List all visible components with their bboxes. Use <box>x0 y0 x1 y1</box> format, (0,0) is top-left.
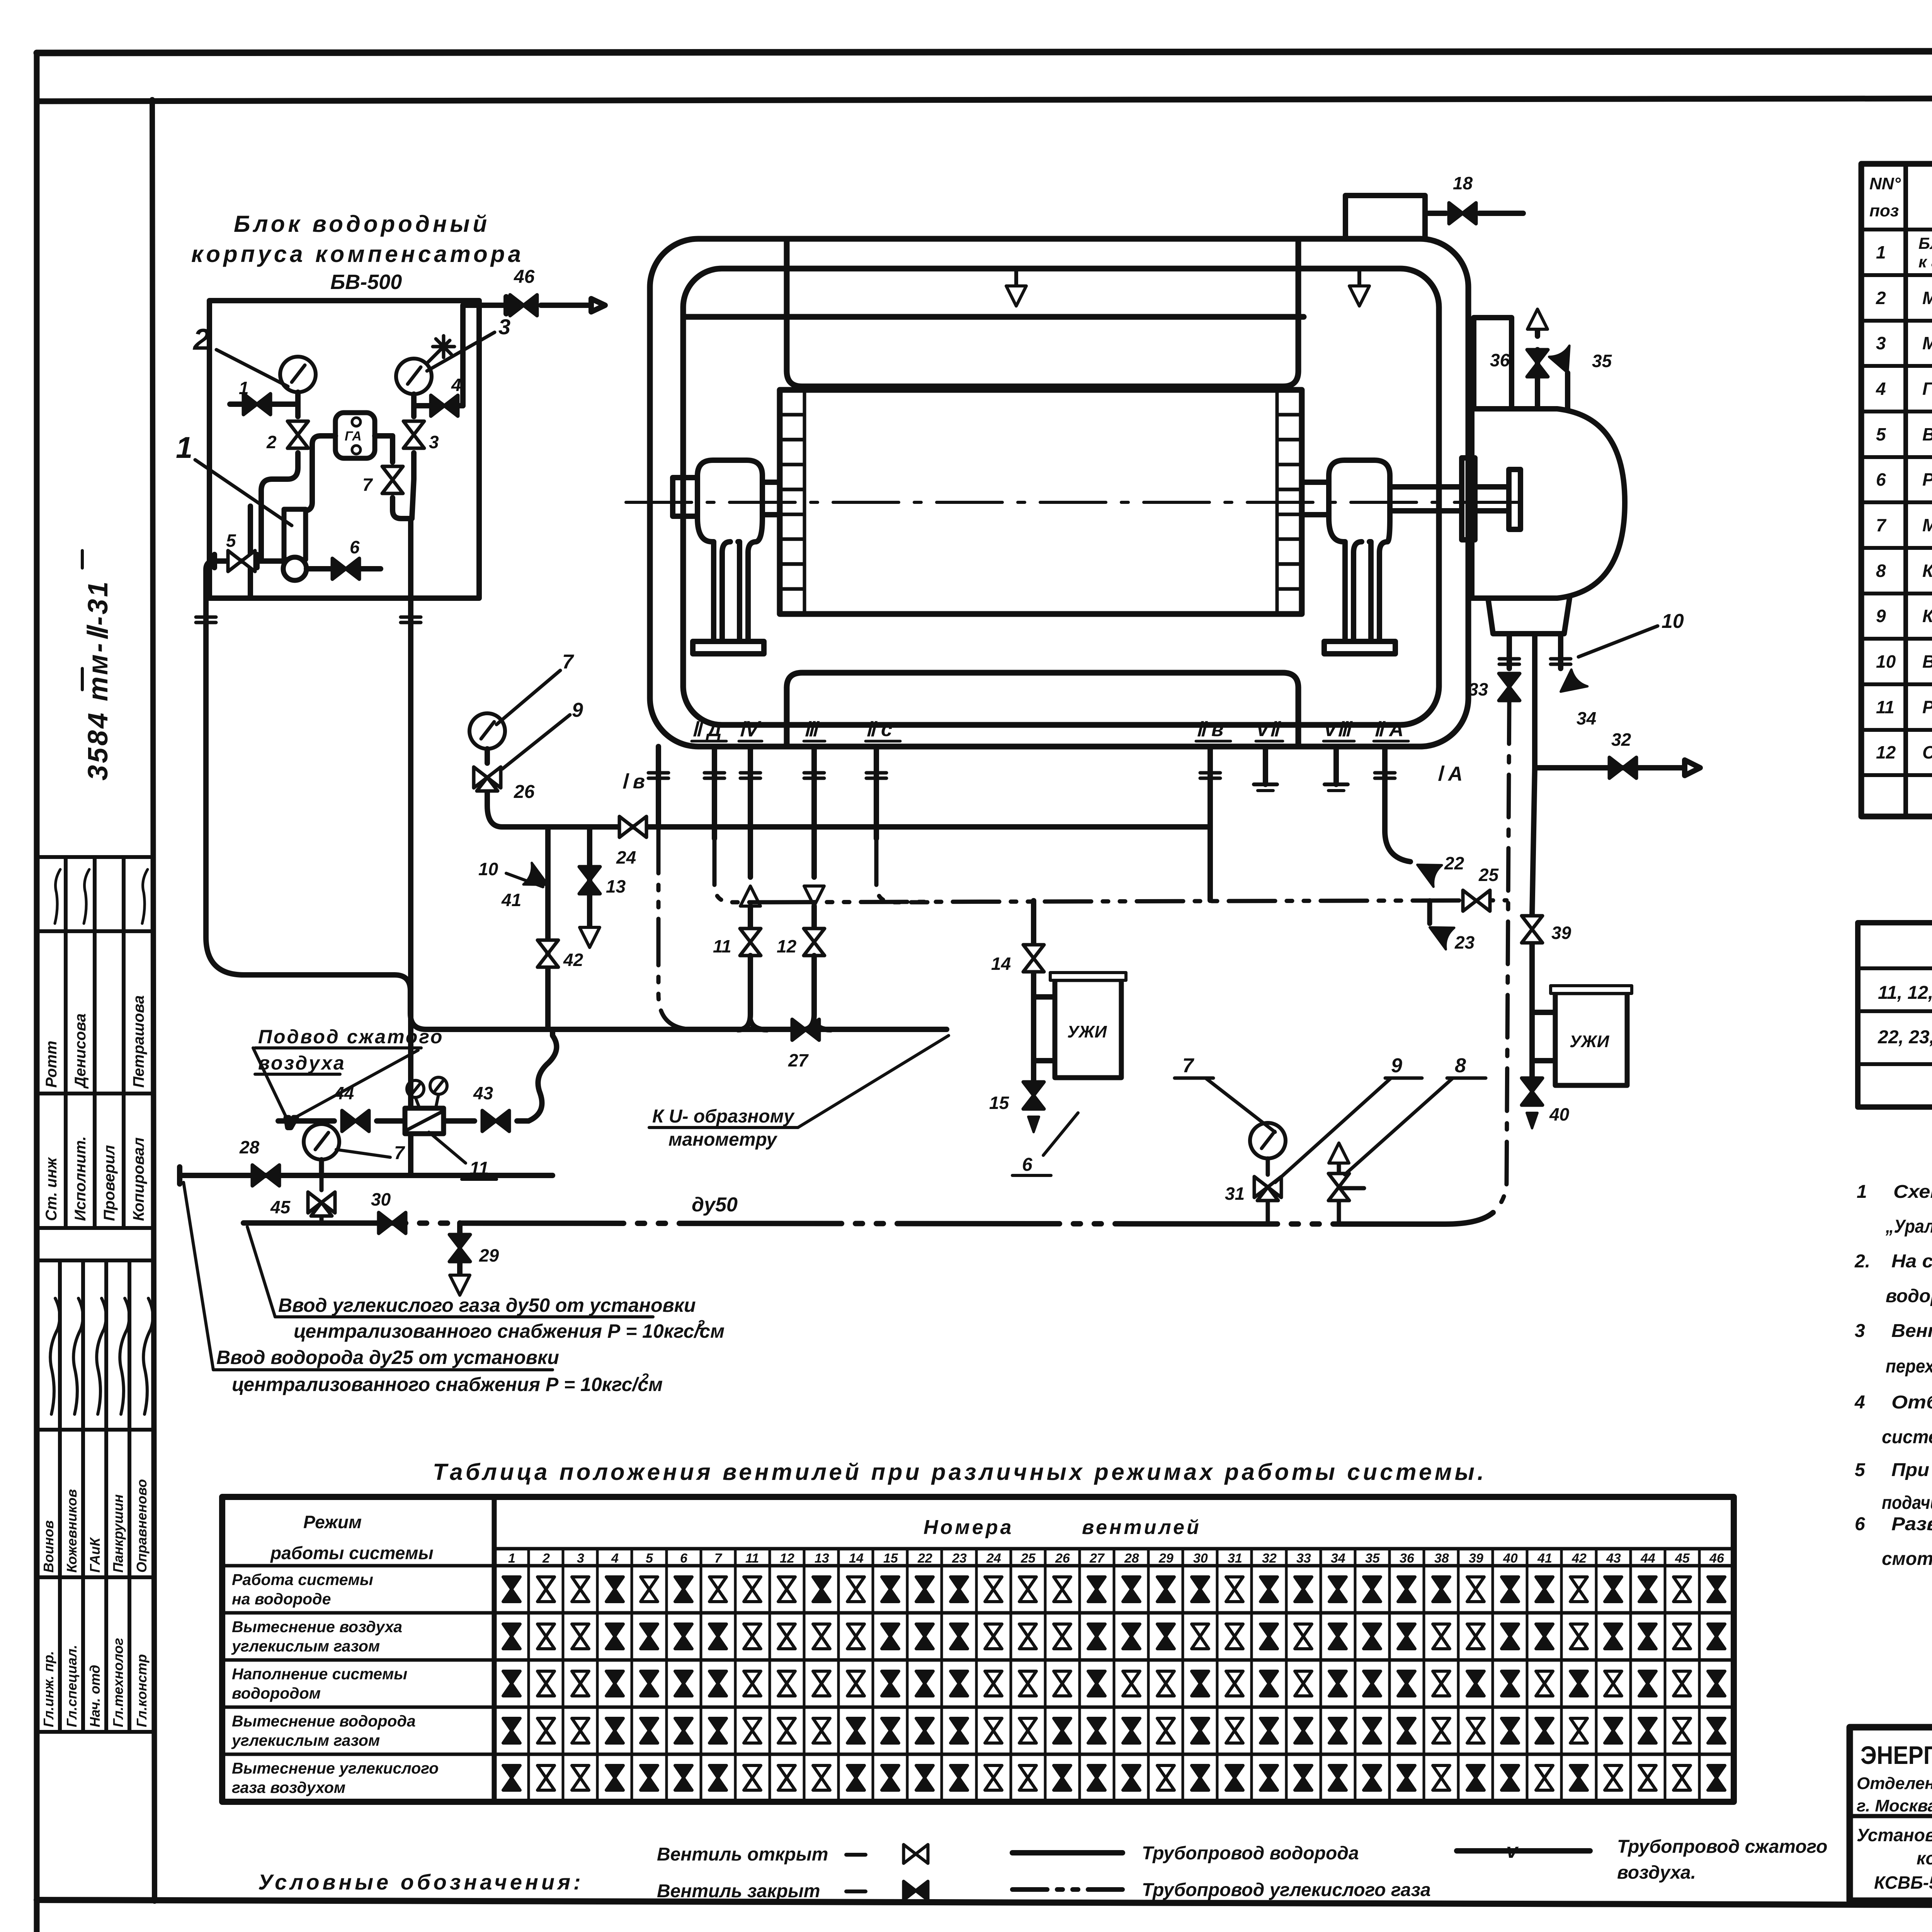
svg-text:Ввод водорода ду25 от уста: Ввод водорода ду25 от установки <box>216 1347 559 1368</box>
svg-text:газа воздухом: газа воздухом <box>232 1779 345 1796</box>
svg-text:Петрашова: Петрашова <box>130 995 147 1088</box>
svg-text:35: 35 <box>1592 351 1612 371</box>
svg-text:5: 5 <box>226 531 236 551</box>
svg-text:6: 6 <box>680 1551 688 1566</box>
svg-text:Разводку газопроводов в ф: Разводку газопроводов в фундаментах СК и… <box>1891 1514 1932 1534</box>
svg-text:43: 43 <box>1606 1551 1621 1566</box>
svg-text:На схеме показано положение: На схеме показано положение вентилей при… <box>1891 1251 1932 1272</box>
wire: filter line with valves 5,6 <box>228 561 381 569</box>
svg-text:40: 40 <box>1503 1551 1518 1566</box>
leaders 7,9,8 <box>1206 1078 1453 1182</box>
svg-text:25: 25 <box>1478 865 1499 885</box>
svg-text:Ст. инж: Ст. инж <box>43 1156 60 1221</box>
svg-text:Трубопровод углекислого газа: Трубопровод углекислого газа <box>1142 1880 1431 1900</box>
machine bottom connection numerals <box>621 718 1463 793</box>
svg-text:вентилей: вентилей <box>1082 1516 1201 1539</box>
svg-text:2: 2 <box>641 1371 649 1386</box>
valve 15 <box>1023 1082 1044 1109</box>
equipment table grid <box>1861 164 1932 816</box>
svg-text:Ⅱ в: Ⅱ в <box>1196 718 1223 741</box>
svg-text:корпуса компенсатора: корпуса компенсатора <box>191 241 524 267</box>
svg-text:13: 13 <box>815 1551 829 1566</box>
valve 28 <box>252 1165 279 1186</box>
svg-text:23: 23 <box>952 1551 967 1566</box>
valve 25 <box>1463 890 1490 911</box>
svg-text:35: 35 <box>1365 1551 1380 1566</box>
svg-text:1: 1 <box>1876 242 1886 262</box>
svg-text:11: 11 <box>745 1551 759 1566</box>
valve 6 <box>332 558 359 579</box>
svg-text:4: 4 <box>611 1551 619 1566</box>
svg-text:36: 36 <box>1490 350 1510 370</box>
svg-text:воздуха.: воздуха. <box>1617 1862 1696 1883</box>
svg-text:7: 7 <box>714 1551 723 1566</box>
wire: vent pipe to valve 46 <box>463 305 506 406</box>
svg-text:подачи воздуха должен быть: подачи воздуха должен быть отсоединен. <box>1882 1493 1932 1513</box>
svg-text:26: 26 <box>514 782 535 802</box>
hydrogen reducer pos.11 <box>405 1108 444 1134</box>
svg-text:Ⅱ А: Ⅱ А <box>1374 718 1404 741</box>
svg-text:углекислым газом: углекислым газом <box>231 1637 380 1655</box>
svg-text:1: 1 <box>176 430 192 464</box>
svg-text:12: 12 <box>777 936 797 956</box>
svg-text:11, 12, 14, 15 , 24 , 27, 28,: 11, 12, 14, 15 , 24 , 27, 28, 32, 39, 40… <box>1878 983 1932 1003</box>
svg-text:34: 34 <box>1331 1551 1345 1566</box>
valve 4 <box>431 395 458 416</box>
svg-text:Редуктор водородный: Редуктор водородный <box>1922 697 1932 717</box>
centerline <box>626 501 1530 504</box>
svg-text:29: 29 <box>1158 1551 1173 1566</box>
svg-text:14: 14 <box>991 954 1011 974</box>
svg-text:24: 24 <box>986 1551 1001 1566</box>
svg-text:7: 7 <box>562 651 574 673</box>
valve 45 three-way down <box>320 1175 324 1223</box>
svg-text:Номера: Номера <box>923 1516 1014 1539</box>
svg-text:Наполнение системы: Наполнение системы <box>232 1665 407 1683</box>
svg-text:33: 33 <box>1296 1551 1311 1566</box>
svg-text:11: 11 <box>1876 697 1895 717</box>
svg-text:3: 3 <box>498 315 510 339</box>
svg-text:Кожевников: Кожевников <box>64 1489 80 1573</box>
manifold D du50 <box>243 1206 1498 1224</box>
svg-text:Вентиль открыт: Вентиль открыт <box>657 1844 828 1865</box>
svg-text:Вентиль кислородный: Вентиль кислородный <box>1922 651 1932 672</box>
svg-text:11: 11 <box>713 936 731 956</box>
svg-text:Установка синхронных: Установка синхронных <box>1857 1825 1932 1845</box>
leader label 10 left <box>506 873 543 887</box>
svg-text:на водороде: на водороде <box>232 1590 331 1608</box>
svg-text:смотреть на чертежах NN°: смотреть на чертежах NN° ТХ-Ⅱ-9 и ТХ-Ⅱ-1… <box>1882 1549 1932 1569</box>
stator end-winding stacks <box>780 390 1302 614</box>
valve 24 <box>619 816 646 837</box>
filter unit pos.1 <box>284 509 306 560</box>
svg-text:Режим: Режим <box>303 1512 362 1532</box>
svg-text:5: 5 <box>1855 1460 1866 1480</box>
valve position table grid <box>222 1497 1734 1802</box>
svg-text:12: 12 <box>1876 742 1896 762</box>
svg-text:углекислым газом: углекислым газом <box>231 1731 380 1749</box>
svg-text:32: 32 <box>1611 730 1631 750</box>
svg-text:14: 14 <box>849 1551 864 1566</box>
svg-text:Ⅱ Д: Ⅱ Д <box>692 718 722 741</box>
svg-text:18: 18 <box>1453 173 1473 193</box>
svg-text:31: 31 <box>1228 1551 1242 1566</box>
svg-text:Реле уровня индуктивное: Реле уровня индуктивное <box>1922 469 1932 490</box>
svg-text:32: 32 <box>1262 1551 1277 1566</box>
valve 32 line with arrow <box>1535 760 1700 776</box>
svg-text:5: 5 <box>1876 424 1886 444</box>
svg-text:БВ-500: БВ-500 <box>330 270 402 294</box>
gas inflow arrows <box>1014 270 1018 286</box>
svg-text:15: 15 <box>989 1093 1010 1113</box>
valve table grid <box>1858 923 1932 1107</box>
svg-text:Нач. отд: Нач. отд <box>87 1665 103 1727</box>
svg-text:Вытеснение водорода: Вытеснение водорода <box>232 1712 416 1730</box>
svg-text:1: 1 <box>1857 1182 1867 1202</box>
manifold A (hydrogen header) <box>502 824 1210 830</box>
wire: block downpipes with flanges <box>206 598 411 1175</box>
svg-text:4: 4 <box>1876 379 1886 399</box>
svg-text:Оправненово: Оправненово <box>134 1479 150 1573</box>
svg-text:6: 6 <box>1022 1155 1032 1175</box>
svg-text:28: 28 <box>239 1137 260 1157</box>
svg-text:33: 33 <box>1468 679 1488 699</box>
valve 7 <box>382 466 403 493</box>
valve 5 <box>228 551 255 571</box>
valve 2 <box>287 421 308 448</box>
shaft left stub <box>673 478 697 516</box>
svg-text:ду50: ду50 <box>692 1194 738 1216</box>
valve 33 <box>1499 673 1520 701</box>
compensator outer casing <box>650 239 1468 747</box>
valve 1 <box>243 394 270 415</box>
gauge 7 tap + three-way 31 <box>1250 1123 1286 1158</box>
svg-text:Ⅲ: Ⅲ <box>804 718 820 741</box>
svg-text:13: 13 <box>606 876 626 896</box>
svg-text:10: 10 <box>1876 651 1896 672</box>
valve 27 <box>792 1019 819 1040</box>
gauge 2 (pos.2 manometer) <box>280 357 316 392</box>
svg-text:38: 38 <box>1434 1551 1449 1566</box>
svg-text:Соединение штуцерно-торцевое: Соединение штуцерно-торцевое <box>1922 742 1932 762</box>
valve 46 <box>510 295 537 316</box>
svg-text:Ⅰ в: Ⅰ в <box>621 770 645 793</box>
svg-text:1: 1 <box>508 1551 515 1566</box>
svg-text:Вентиль закрыт: Вентиль закрыт <box>657 1881 820 1901</box>
svg-text:Гл.инж. пр.: Гл.инж. пр. <box>41 1651 56 1727</box>
svg-text:15: 15 <box>883 1551 898 1566</box>
leader 11 <box>429 1132 466 1163</box>
gas analyzer GA box <box>335 413 375 458</box>
svg-text:5: 5 <box>646 1551 653 1566</box>
svg-text:8: 8 <box>1455 1054 1466 1077</box>
svg-text:7: 7 <box>1876 515 1887 535</box>
manifold B (CO2 to right) <box>769 900 1507 902</box>
svg-text:ЭНЕРГОСЕТЬПРОЕКТ: ЭНЕРГОСЕТЬПРОЕКТ <box>1861 1741 1932 1769</box>
svg-text:31: 31 <box>1225 1184 1245 1204</box>
svg-text:11: 11 <box>469 1158 489 1179</box>
top duct and valve 18 <box>1345 196 1523 239</box>
svg-text:Газоанализатор: Газоанализатор <box>1922 379 1932 399</box>
svg-text:Работа системы: Работа системы <box>232 1571 373 1588</box>
air inlet with reducer 11 <box>278 1030 556 1132</box>
svg-text:3: 3 <box>1855 1321 1865 1341</box>
svg-text:45: 45 <box>270 1197 291 1217</box>
svg-text:Копировал: Копировал <box>130 1137 147 1221</box>
svg-text:централизованного снабжения: централизованного снабжения Р = 10кгс/см <box>294 1320 724 1342</box>
svg-text:Схема составлена на основан: Схема составлена на основании чертежей з… <box>1893 1182 1932 1202</box>
gauge 7/9 stack with three-way 26 <box>469 713 505 749</box>
svg-text:Гл.технолог: Гл.технолог <box>110 1638 126 1727</box>
svg-text:v: v <box>285 1111 296 1132</box>
wire: dash-dot column from valve 33 down to manifold D <box>1499 701 1509 1206</box>
svg-text:10: 10 <box>478 859 498 879</box>
svg-text:Ввод углекислого газа ду50: Ввод углекислого газа ду50 от установки <box>278 1294 696 1316</box>
stator chimney verticals <box>784 239 790 371</box>
svg-text:централизованного снабжения: централизованного снабжения Р = 10кгс/см <box>232 1374 663 1395</box>
svg-text:NN°: NN° <box>1869 174 1901 193</box>
svg-text:Вентиль запорный: Вентиль запорный <box>1922 424 1932 444</box>
leader label 6 <box>1043 1113 1078 1155</box>
svg-text:Блок водородный: Блок водородный <box>234 211 490 237</box>
svg-text:12: 12 <box>780 1551 794 1566</box>
svg-text:3: 3 <box>577 1551 584 1566</box>
svg-text:Ⅰ А: Ⅰ А <box>1437 763 1463 785</box>
wire: right solid column to UZHI right <box>1532 768 1555 1078</box>
svg-text:Ⅱ с: Ⅱ с <box>866 718 892 741</box>
svg-text:4: 4 <box>451 375 461 395</box>
svg-text:7: 7 <box>1182 1054 1194 1077</box>
svg-text:Воинов: Воинов <box>41 1520 56 1573</box>
manifold E air <box>180 1167 553 1184</box>
level relay UZHI left <box>1055 980 1121 1078</box>
svg-text:ГА: ГА <box>345 429 362 444</box>
gas dryer vessel right <box>1472 318 1625 768</box>
svg-text:24: 24 <box>616 847 636 867</box>
svg-text:3: 3 <box>1876 333 1886 353</box>
svg-text:3: 3 <box>429 432 439 452</box>
vent arrow + valve 36 <box>1527 309 1548 329</box>
svg-text:компенсаторов: компенсаторов <box>1917 1848 1932 1868</box>
stub: flag 41 + valve 42 branch <box>545 827 551 1029</box>
svg-text:водородом: водородом <box>232 1684 321 1702</box>
svg-text:2: 2 <box>697 1318 705 1332</box>
valve 3 <box>403 421 424 448</box>
svg-text:VⅢ: VⅢ <box>1323 718 1353 741</box>
svg-text:43: 43 <box>473 1083 493 1103</box>
svg-text:Вентили 1, 4, 6, 13, 29, 32: Вентили 1, 4, 6, 13, 29, 32, 36 использу… <box>1891 1321 1932 1341</box>
svg-text:К U- образному: К U- образному <box>652 1106 795 1127</box>
svg-text:9: 9 <box>1391 1054 1402 1077</box>
svg-text:Манометр ОВМ-160: Манометр ОВМ-160 <box>1922 515 1932 535</box>
svg-text:44: 44 <box>1640 1551 1655 1566</box>
svg-text:28: 28 <box>1124 1551 1139 1566</box>
svg-text:3584 тм-Ⅱ-31: 3584 тм-Ⅱ-31 <box>83 580 114 781</box>
svg-text:Гл.констр: Гл.констр <box>134 1654 150 1727</box>
svg-text:41: 41 <box>501 890 521 910</box>
safety valve 8 tap <box>1339 1163 1364 1224</box>
gauge 3 electrocontact <box>396 359 432 394</box>
svg-text:7: 7 <box>362 474 373 495</box>
valve 39 <box>1522 916 1543 943</box>
svg-text:Манометр электроконтактный: Манометр электроконтактный <box>1922 333 1932 353</box>
svg-text:г. Москва: г. Москва <box>1857 1796 1932 1815</box>
rotor body <box>780 390 1302 614</box>
dash stubs IID/IIc to manifold B <box>658 827 927 1029</box>
svg-text:2: 2 <box>192 322 210 356</box>
svg-text:Гл.специал.: Гл.специал. <box>64 1645 80 1727</box>
svg-text:42: 42 <box>1571 1551 1587 1566</box>
svg-text:9: 9 <box>1876 606 1886 626</box>
svg-text:Ротт: Ротт <box>43 1041 60 1088</box>
shaft right / coupling <box>1302 480 1329 485</box>
svg-text:22: 22 <box>1444 853 1464 873</box>
compensator inner casing <box>683 269 1439 725</box>
svg-text:поз: поз <box>1869 201 1899 220</box>
wire: gauge2 stem <box>230 392 298 404</box>
valve 43 <box>482 1111 509 1131</box>
svg-text:Трубопровод сжатого: Трубопровод сжатого <box>1617 1837 1827 1857</box>
svg-text:30: 30 <box>1193 1551 1208 1566</box>
svg-text:Отбор проб газа при перех: Отбор проб газа при переходных режимах и… <box>1891 1392 1932 1413</box>
valve 29 drain <box>457 1223 463 1275</box>
svg-text:46: 46 <box>514 267 535 287</box>
svg-text:36: 36 <box>1400 1551 1415 1566</box>
valve 44 <box>342 1111 369 1131</box>
svg-text:7: 7 <box>394 1143 405 1163</box>
svg-text:„Уралэлектротяжмаш“ NN° ОВП: „Уралэлектротяжмаш“ NN° ОВП. 359.139 и О… <box>1885 1216 1932 1237</box>
svg-text:Панкрушин: Панкрушин <box>110 1494 126 1573</box>
svg-text:2: 2 <box>266 432 277 452</box>
svg-text:22, 23, 41: 22, 23, 41 <box>1878 1027 1932 1048</box>
svg-text:27: 27 <box>788 1050 809 1070</box>
svg-text:4: 4 <box>1854 1392 1865 1413</box>
svg-text:Вытеснение углекислого: Вытеснение углекислого <box>232 1759 439 1777</box>
gauge 7 on air line <box>304 1124 339 1160</box>
svg-text:УЖИ: УЖИ <box>1067 1022 1107 1041</box>
svg-text:водороде. Нумерация вентилей: водороде. Нумерация вентилей соответству… <box>1886 1286 1932 1306</box>
svg-text:воздуха: воздуха <box>258 1052 346 1074</box>
valve 35 (oxygen flag) <box>1548 345 1580 377</box>
svg-text:Вытеснение воздуха: Вытеснение воздуха <box>232 1618 402 1636</box>
wire: GA connections <box>299 436 411 519</box>
svg-text:КСВБ-50-11У1: КСВБ-50-11У1 <box>1874 1872 1932 1893</box>
svg-text:1: 1 <box>239 378 249 398</box>
svg-text:VⅡ: VⅡ <box>1256 718 1282 741</box>
svg-text:2: 2 <box>1876 288 1886 308</box>
svg-text:Подвод сжатого: Подвод сжатого <box>258 1026 444 1048</box>
valve 34 (oxygen flag) <box>1554 668 1587 702</box>
svg-text:ГАиК: ГАиК <box>87 1537 103 1573</box>
leader label 10 <box>1578 626 1658 657</box>
stub: valve 13 drain <box>587 827 592 927</box>
svg-text:Кран трехходовый: Кран трехходовый <box>1922 606 1932 626</box>
svg-text:2.: 2. <box>1854 1251 1870 1272</box>
hydrogen block boundary <box>209 301 479 598</box>
svg-text:Ⅳ: Ⅳ <box>739 718 762 741</box>
valve 40 <box>1522 1078 1543 1105</box>
valve position symbols <box>503 1577 520 1602</box>
svg-text:Трубопровод водорода: Трубопровод водорода <box>1142 1843 1359 1864</box>
svg-text:При работе системы на во: При работе системы на водороде гибкий шл… <box>1891 1460 1932 1480</box>
svg-text:23: 23 <box>1454 932 1475 952</box>
arrows and valves 11,12 on purge stubs <box>740 886 760 906</box>
bearing right <box>1302 458 1520 654</box>
svg-text:8: 8 <box>1876 561 1886 581</box>
flag 22 on IIA bend <box>1385 831 1410 862</box>
svg-text:26: 26 <box>1055 1551 1070 1566</box>
svg-text:22: 22 <box>917 1551 932 1566</box>
title block <box>1850 1727 1932 1901</box>
manifold C (left CO2 header) <box>395 975 947 1029</box>
svg-text:УЖИ: УЖИ <box>1570 1032 1610 1051</box>
svg-text:переходных режимах , вентили: переходных режимах , вентили 15, 40 дрен… <box>1886 1356 1932 1377</box>
svg-text:системы на водороде произво: системы на водороде производится через в… <box>1882 1427 1932 1447</box>
svg-text:Отделение Дальних Передач: Отделение Дальних Передач <box>1857 1774 1932 1793</box>
leader labels 2,1,3 <box>195 332 495 526</box>
valve 30 <box>379 1213 406 1233</box>
svg-text:Исполнит.: Исполнит. <box>72 1136 89 1221</box>
svg-text:Блок регулирования и фильтра: Блок регулирования и фильтрации <box>1918 234 1932 252</box>
svg-text:6: 6 <box>1876 469 1886 490</box>
svg-text:к газоанализатору: к газоанализатору <box>1918 253 1932 271</box>
svg-text:9: 9 <box>572 699 583 721</box>
svg-text:34: 34 <box>1577 708 1596 728</box>
svg-text:46: 46 <box>1709 1551 1725 1566</box>
svg-text:Денисова: Денисова <box>72 1014 89 1089</box>
signature table upper <box>37 857 153 1732</box>
svg-text:42: 42 <box>563 950 583 970</box>
svg-text:Таблица положения вентилей: Таблица положения вентилей при различных… <box>433 1459 1484 1485</box>
svg-text:Проверил: Проверил <box>101 1145 118 1221</box>
upper inner duct line <box>683 314 1304 320</box>
svg-text:Манометр ОБМ-160: Манометр ОБМ-160 <box>1922 288 1932 308</box>
level relay UZHI right <box>1555 993 1627 1085</box>
svg-text:40: 40 <box>1549 1104 1570 1124</box>
equipment table header <box>1869 168 1932 230</box>
svg-text:39: 39 <box>1469 1551 1483 1566</box>
svg-text:10: 10 <box>1662 610 1684 633</box>
svg-text:6: 6 <box>350 537 360 557</box>
valve 14 / UZHI tank left / valve 15 <box>1034 901 1055 1082</box>
svg-text:41: 41 <box>1537 1551 1552 1566</box>
svg-text:2: 2 <box>542 1551 550 1566</box>
svg-text:v: v <box>1506 1839 1519 1862</box>
svg-text:29: 29 <box>479 1245 499 1265</box>
svg-text:6: 6 <box>1855 1514 1865 1534</box>
svg-text:30: 30 <box>371 1189 391 1209</box>
svg-text:работы системы: работы системы <box>270 1543 434 1563</box>
machine bottom stubs to manifolds <box>658 747 1385 900</box>
flag 23 below B <box>1427 901 1432 923</box>
svg-text:25: 25 <box>1020 1551 1036 1566</box>
svg-text:27: 27 <box>1089 1551 1105 1566</box>
svg-text:39: 39 <box>1551 923 1571 943</box>
svg-text:45: 45 <box>1675 1551 1690 1566</box>
svg-text:манометру: манометру <box>668 1129 777 1150</box>
svg-text:Условные обозначения:: Условные обозначения: <box>258 1870 584 1894</box>
bearing left <box>673 460 780 654</box>
svg-text:Клапан предохранительный: Клапан предохранительный <box>1922 561 1932 581</box>
